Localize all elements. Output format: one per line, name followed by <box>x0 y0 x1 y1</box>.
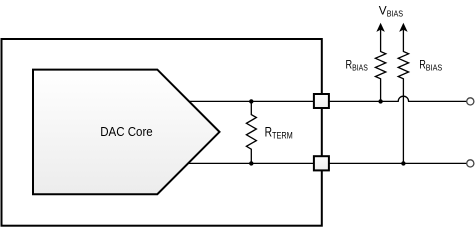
svg-text:RTERM: RTERM <box>265 125 293 141</box>
chip outline rectangle <box>2 39 322 226</box>
svg-text:DAC Core: DAC Core <box>100 124 153 139</box>
terminal OUTP (open circle) <box>467 98 474 105</box>
svg-text:VBIAS: VBIAS <box>379 4 403 19</box>
junction node: RBIAS1 to top wire <box>378 99 382 103</box>
junction node: RBIAS2 to bottom wire <box>401 161 405 165</box>
wire: pentagon top output to pad <box>189 100 317 102</box>
terminal OUTN (open circle) <box>467 160 474 167</box>
wire: bottom pad to OUTN terminal <box>329 162 467 164</box>
wire: pentagon bottom output to pad <box>188 162 317 164</box>
resistor RBIAS1 (left) with arrow to VBIAS <box>375 30 385 102</box>
resistor RTERM <box>246 101 256 163</box>
resistor RBIAS2 (right) with arrow to VBIAS <box>398 30 408 164</box>
junction node: RTERM bottom <box>249 161 253 165</box>
svg-text:RBIAS: RBIAS <box>419 58 442 73</box>
wire: top pad to OUTP terminal with hop over RBIAS2 lead <box>329 96 467 101</box>
pad P1 (top) <box>314 94 329 108</box>
DAC Core pentagon <box>33 70 220 195</box>
svg-text:RBIAS: RBIAS <box>346 58 368 73</box>
junction node: RTERM top <box>249 99 253 103</box>
arrowhead VBIAS left <box>377 24 384 32</box>
pad P2 (bottom) <box>314 156 329 170</box>
arrowhead VBIAS right <box>400 24 407 32</box>
